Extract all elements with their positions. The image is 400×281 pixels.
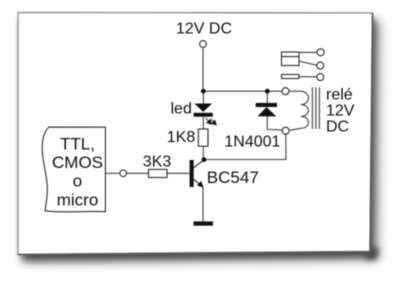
svg-text:1K8: 1K8 — [167, 129, 196, 146]
wire 12V terminal to top rail — [202, 47, 204, 91]
svg-text:12V DC: 12V DC — [176, 21, 232, 38]
wire diode 1N4001 top — [266, 91, 268, 103]
wire LED anode — [202, 91, 204, 103]
LED D1 cathode bar — [194, 113, 213, 117]
node 12V terminal — [200, 41, 207, 48]
wire TTL box to input terminal — [105, 172, 120, 174]
svg-text:o: o — [73, 171, 82, 190]
wire base to resistor 3K3 — [167, 172, 190, 174]
wire diode 1N4001 bottom — [267, 116, 282, 130]
TTL source box — [42, 127, 105, 212]
junction dot C (collector node) — [202, 157, 207, 162]
wire top rail — [203, 90, 282, 92]
relay core line 2 — [315, 87, 317, 129]
wire input terminal to resistor 3K3 — [127, 172, 149, 174]
resistor R1 1K8 — [198, 129, 208, 146]
node contact terminal 2 — [317, 62, 324, 69]
diode D2 1N4001 cathode bar — [256, 103, 277, 107]
svg-text:DC: DC — [326, 119, 349, 136]
svg-text:12V: 12V — [326, 103, 355, 120]
transistor Q1 collector lead — [194, 160, 204, 168]
junction dot A (12V / led) — [201, 89, 206, 94]
relay contact armature box — [282, 52, 300, 66]
svg-text:BC547: BC547 — [207, 168, 259, 187]
wire contact moving blade — [299, 61, 317, 65]
wire resistor 1K8 to collector node — [202, 146, 204, 160]
diode D2 1N4001 triangle — [258, 107, 277, 116]
transistor Q1 emitter lead — [194, 179, 202, 186]
svg-text:relé: relé — [326, 86, 353, 103]
LED light arrow 1 — [206, 118, 212, 124]
relay core line 1 — [311, 87, 313, 129]
relay K1 coil — [289, 91, 308, 130]
svg-text:micro: micro — [57, 191, 99, 210]
svg-text:1N4001: 1N4001 — [224, 134, 280, 151]
junction dot B (12V / 1N4001) — [265, 89, 270, 94]
wire fixed contact — [299, 76, 317, 78]
wire contact common — [299, 51, 317, 53]
ground — [194, 221, 214, 225]
LED light arrow 2 — [211, 119, 217, 125]
node contact terminal 3 — [317, 74, 324, 81]
svg-text:CMOS: CMOS — [52, 153, 103, 172]
svg-text:TTL,: TTL, — [60, 134, 95, 153]
relay core line 3 — [318, 87, 320, 129]
transistor Q1 emitter arrow — [197, 181, 204, 188]
node coil terminal bottom — [282, 127, 289, 134]
resistor R2 3K3 — [149, 169, 168, 177]
svg-text:3K3: 3K3 — [143, 153, 172, 170]
wire coil bottom to collector rail — [204, 134, 286, 159]
transistor Q1 BC547 base bar — [190, 160, 194, 187]
svg-text:led: led — [171, 101, 192, 118]
wire emitter to ground — [202, 187, 204, 222]
relay fixed contact plate — [282, 75, 300, 79]
node coil terminal top — [282, 88, 289, 95]
wire LED cathode to resistor R 1K8 — [202, 117, 204, 129]
node contact terminal 1 — [317, 49, 324, 56]
LED D1 triangle — [194, 104, 212, 112]
node input terminal — [120, 170, 127, 177]
